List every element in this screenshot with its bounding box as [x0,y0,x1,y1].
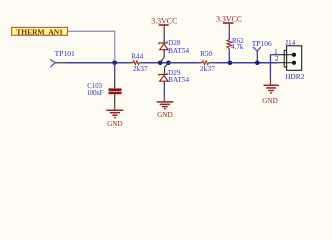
svg-text:2: 2 [275,54,279,63]
wire TP101 to node A [67,62,128,64]
svg-text:TP106: TP106 [252,39,272,48]
junction node A [112,60,117,65]
pin 2 of J14 [277,62,294,64]
svg-text:3.3VCC: 3.3VCC [151,16,177,25]
svg-text:3.3VCC: 3.3VCC [216,15,242,24]
power 3.3VCC left [151,16,177,33]
svg-text:2k37: 2k37 [133,65,148,73]
power 3.3VCC right [216,15,242,33]
junction node E (TP106) [255,60,260,65]
svg-text:GND: GND [107,120,123,128]
svg-text:4.7k: 4.7k [231,43,244,51]
port THERM_AN1 [12,27,68,36]
svg-text:J14: J14 [285,39,295,47]
svg-text:TP101: TP101 [55,49,75,58]
svg-text:100nF: 100nF [87,90,104,97]
wire R62 to node D [228,52,230,63]
svg-text:BAT54: BAT54 [168,76,189,84]
ground GND under C103 [106,106,123,128]
svg-text:R50: R50 [200,50,212,58]
pin TP101 [55,62,66,64]
svg-text:C103: C103 [87,83,102,90]
svg-text:2k37: 2k37 [200,65,215,73]
junction node C [166,60,171,65]
wire 3.3VCC to D28 [163,34,165,40]
svg-text:R44: R44 [131,53,143,61]
resistor R44 [128,61,143,65]
diode D28 [159,40,168,63]
pin 1 of J14 [277,54,294,56]
svg-text:GND: GND [262,97,278,105]
diode D29 [159,63,169,87]
wire node C to R50 [169,62,199,64]
junction node D (R62) [228,60,233,65]
test point TP106 [252,39,272,62]
junction node B [158,60,163,65]
wire 3.3VCC to R62 [228,33,230,38]
resistor R62 [227,38,232,52]
wire R50 to node D [214,62,277,64]
ground GND under D29 [157,97,174,119]
wire J14 pin1 to GND [270,55,277,79]
svg-text:D28: D28 [168,39,181,47]
wire port THERM_AN1 to node A [68,31,115,61]
test point TP101 [50,49,75,67]
wire R44 to node B [143,62,199,64]
svg-text:THERM_AN1: THERM_AN1 [16,27,63,36]
resistor R50 [199,61,215,65]
svg-text:BAT54: BAT54 [168,47,189,55]
connector J14 [277,46,301,71]
svg-text:HDR2: HDR2 [285,72,305,81]
capacitor C103 [109,63,122,106]
ground GND under J14 [262,79,278,105]
svg-text:GND: GND [157,111,173,119]
wire D29 to GND [163,87,165,98]
